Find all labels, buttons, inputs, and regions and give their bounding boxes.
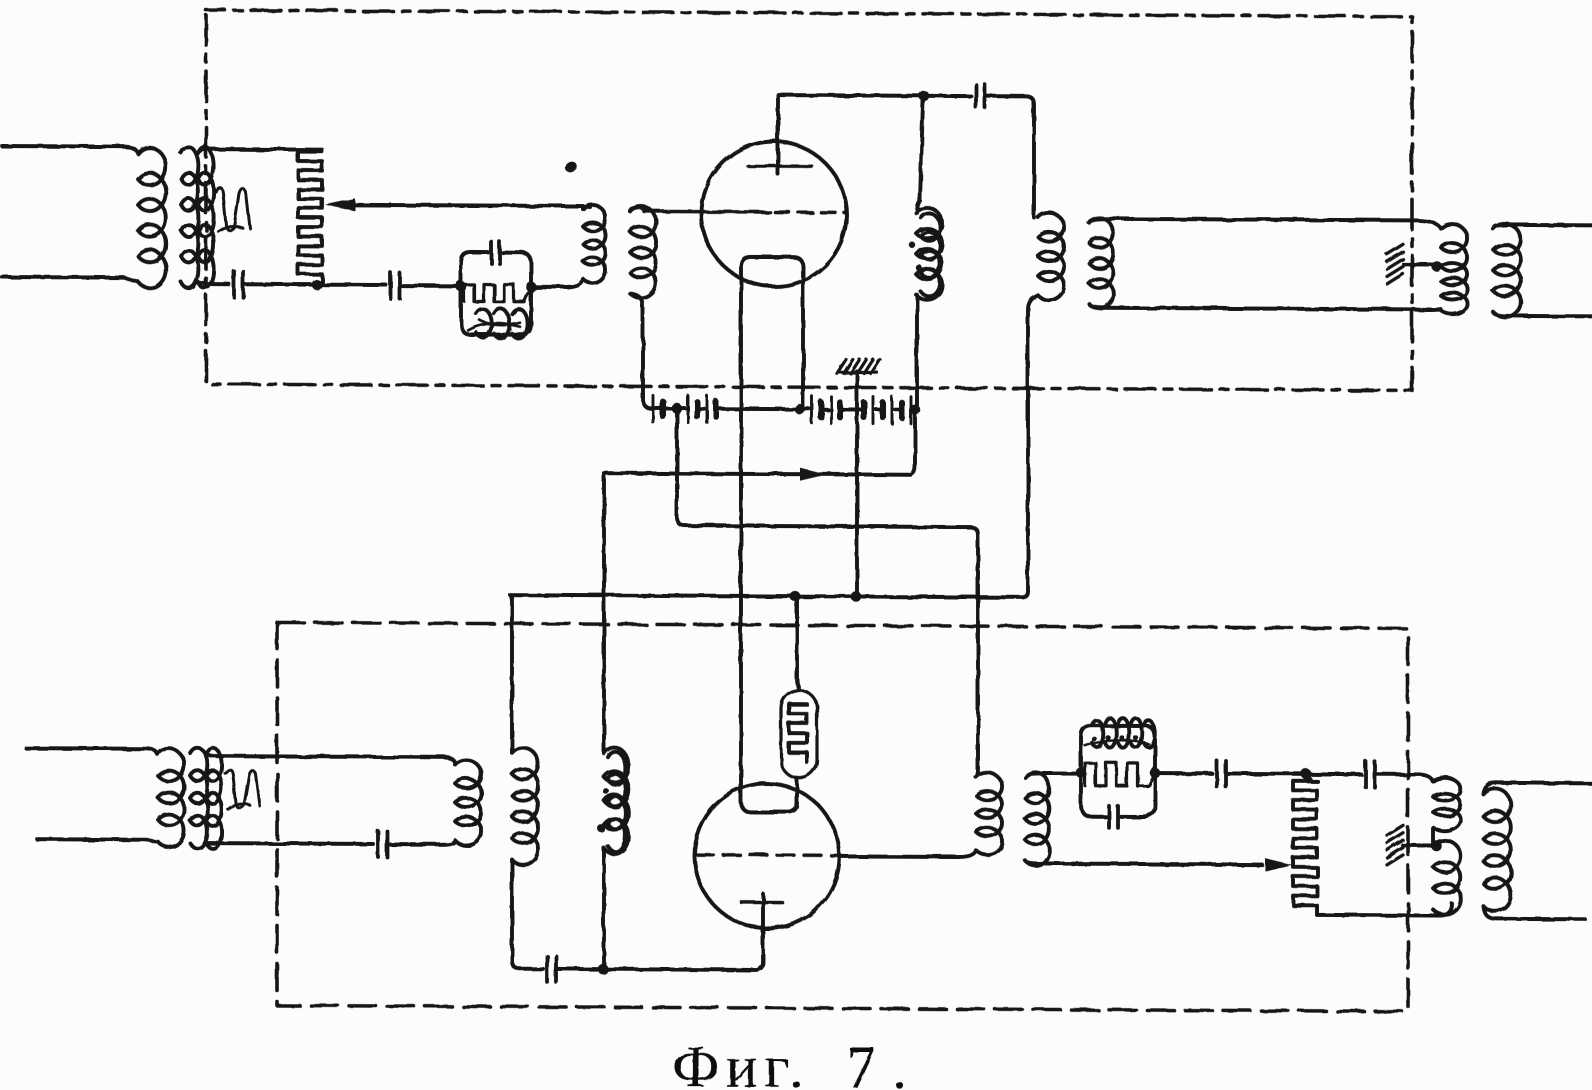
ground G2 hatch [1387, 825, 1403, 835]
wire L13 top lead to rheostat [1025, 773, 1077, 777]
grid leak R2 with C3 (parallel box) outline [461, 252, 531, 334]
node battery tap b [795, 404, 806, 415]
coil L11 input secondary column 2 [206, 748, 222, 849]
wire node to C9 [1306, 772, 1361, 776]
wire link line corner down to L7 [510, 595, 512, 753]
coil L7 interstage primary [512, 748, 538, 865]
wire bias line from tap a down and right to L8 [677, 409, 978, 778]
wire R1 bottom to C2 [322, 283, 386, 287]
coil L18 line winding top [1493, 224, 1521, 317]
scribble winding in grid-leak box bottom [476, 309, 492, 337]
wire rheostat to C8 [1155, 771, 1212, 775]
capacitor C4 [974, 85, 978, 108]
battery B1 cells [652, 395, 655, 422]
coil L15 line winding [1483, 788, 1511, 911]
wire L14 center tap [1403, 843, 1432, 847]
rheostat R3 with C7 box outline [1081, 726, 1155, 817]
capacitor C9 [1364, 761, 1368, 787]
wire L3 top lead to arrow line [583, 207, 590, 209]
node link junction to ground stem [851, 591, 862, 602]
wire L9 bottom lead to node [602, 848, 606, 969]
tube V1 envelope [702, 141, 847, 287]
wire junction to capacitor C4 [924, 94, 971, 98]
wire anode rail of V2 left segment [520, 967, 543, 971]
arrowhead on feedback line [800, 468, 827, 481]
wire L17 center tap [1404, 262, 1436, 266]
node rheostat right junction [1150, 768, 1161, 779]
coil L17b output lower top-box [1441, 263, 1467, 314]
coil L10 input primary [158, 749, 184, 848]
tube V1 anode plate [748, 164, 812, 168]
svg-text:7.: 7. [846, 1034, 923, 1090]
tube V2 envelope [695, 783, 840, 929]
wire L14a to L14b joint [1431, 828, 1435, 846]
node battery tap a [672, 403, 683, 414]
coil L14b output lower [1433, 840, 1461, 914]
wire input line A top [2, 146, 138, 154]
capacitor C7 on bottom branch [1107, 806, 1111, 828]
wire barretter top lead to link node [797, 596, 799, 690]
resistor R3 meander [1085, 763, 1155, 786]
wire L2 top lead to R1 [198, 149, 322, 154]
coil L14a output upper [1433, 778, 1461, 831]
wire secondary bottom rail [1089, 304, 1441, 310]
wire V2 grid lead to L8 [840, 849, 976, 857]
node link junction to barretter [790, 591, 801, 602]
capacitor C6 [545, 956, 549, 982]
tube V2 grid (dashed electrode) [696, 853, 840, 857]
label handwritten note near L2 [215, 188, 250, 232]
node tap junction at R1 bottom [312, 279, 323, 290]
capacitor C1 [232, 271, 236, 297]
wire input line B bottom [37, 839, 158, 842]
wire C1 to R1 bottom [243, 282, 312, 286]
wire anode top rail [778, 93, 919, 98]
wire link line common (between stages) [510, 595, 1022, 598]
capacitor C3 on top branch [490, 242, 494, 264]
wire L13 bottom lead (arrow line) [1025, 860, 1262, 864]
wire shared filament line down to V2 [739, 409, 743, 801]
wire feedback line with arrow from L9 up to battery end [604, 408, 915, 475]
capacitor C2 [389, 273, 393, 299]
ink blob [563, 159, 579, 174]
tube V1 anode lead up [776, 95, 780, 174]
wire C9 to output coil pair top [1375, 774, 1433, 781]
wire grid-leak to L3 bottom [531, 279, 583, 287]
wire L4 bottom lead down to battery [630, 293, 652, 408]
tube V2 cathode sleeve [741, 778, 797, 812]
node center tap junction top [1432, 261, 1443, 272]
coil L13 coupled winding [1025, 772, 1049, 865]
coil L1 antenna primary [138, 148, 166, 288]
resistor R4 tapped (vertical meander) [1293, 781, 1317, 915]
node anode rail junction [919, 91, 930, 102]
node battery end [910, 404, 921, 415]
wire L7 bottom lead down to anode rail [512, 860, 520, 969]
node anode rail junction bottom [598, 964, 609, 975]
tube V1 cathode sleeve [741, 257, 803, 409]
coil L17a output upper top-box [1441, 224, 1467, 271]
wire L6 bottom lead down to link line [1022, 295, 1038, 597]
wire L11 bottom lead to C5 [206, 841, 373, 846]
wire node to V2 anode corner [603, 893, 763, 970]
coil L3 (tap transformer primary) [583, 205, 606, 283]
wire C8 to node [1226, 771, 1306, 775]
node output junction [1301, 769, 1312, 780]
node grid-leak right junction [526, 281, 537, 292]
wire R4 bottom to coil pair bottom [1317, 903, 1452, 916]
coil L5 anode choke (scribbled) [916, 208, 942, 300]
tube V1 grid (dashed electrode) [644, 210, 770, 214]
label handwritten note near L11 [225, 770, 260, 810]
capacitor C5 [376, 831, 380, 857]
coil L9 scribbled winding [604, 747, 628, 854]
wire L15 bottom lead to edge [1483, 906, 1585, 920]
wire R4 top lead to node [1306, 774, 1317, 781]
tube V2 anode plate [741, 900, 782, 904]
coil L12 tuned secondary [455, 760, 481, 845]
ground G1 at battery center [855, 371, 859, 409]
coil L2 secondary column 1 [181, 147, 198, 288]
wire L18 top lead to edge [1493, 225, 1592, 230]
wire input line B top [26, 748, 158, 755]
wire arrow tap into R1 (feedback lead) [338, 205, 583, 206]
capacitor C8 [1215, 760, 1219, 786]
ground G3 hatch [1387, 244, 1403, 254]
node center tap junction bottom [1431, 840, 1442, 851]
wire L15 top lead to edge [1483, 783, 1592, 795]
wire L18 bottom lead to edge [1493, 312, 1592, 317]
wire L4 top lead to V1 grid [630, 207, 646, 211]
wire battery series links [656, 406, 660, 410]
wire ground stem down from battery to link line [855, 409, 859, 596]
coil L6 anode tank [1038, 213, 1064, 300]
wire C6 to node [556, 967, 603, 971]
wire C2 to grid-leak box [400, 284, 458, 288]
node rheostat left junction [1076, 767, 1087, 778]
wire L2 bottom lead to C1 [198, 282, 229, 284]
resistor R2 meander [461, 284, 531, 301]
barretter U1 envelope [781, 690, 817, 778]
barretter U1 filament meander [789, 704, 807, 762]
coil L2 secondary column 2 [198, 147, 214, 288]
wire L9 riser [602, 473, 606, 753]
wire input line A bottom [2, 277, 138, 282]
arrowhead into R4 [1265, 858, 1292, 871]
resistor R1 tapped (vertical meander) [298, 152, 322, 284]
svg-text:Фиг.: Фиг. [672, 1034, 810, 1090]
wire L5 bottom lead [915, 295, 919, 405]
wire C5 to L12 bottom [387, 840, 455, 844]
coil L11 input secondary column 1 [190, 748, 207, 849]
scribbled winding on rheostat top [1092, 720, 1103, 747]
wire L5 top lead [917, 101, 923, 213]
node grid-leak left junction [456, 281, 467, 292]
coil L16 secondary left end [1089, 218, 1113, 309]
enclosure box of first stage (dash-dot border) [206, 10, 1412, 390]
coil L4 grid coil of V1 [630, 206, 656, 298]
enclosure box of second stage (dashed border) [277, 622, 1408, 1011]
wire secondary top rail [1089, 219, 1441, 229]
arrowhead at R1 tap [325, 198, 355, 211]
wire C4 to tank corner [985, 96, 1034, 217]
coil L8 grid coil of V2 [976, 773, 1002, 855]
wire L11 top rail to L12 [206, 753, 455, 764]
